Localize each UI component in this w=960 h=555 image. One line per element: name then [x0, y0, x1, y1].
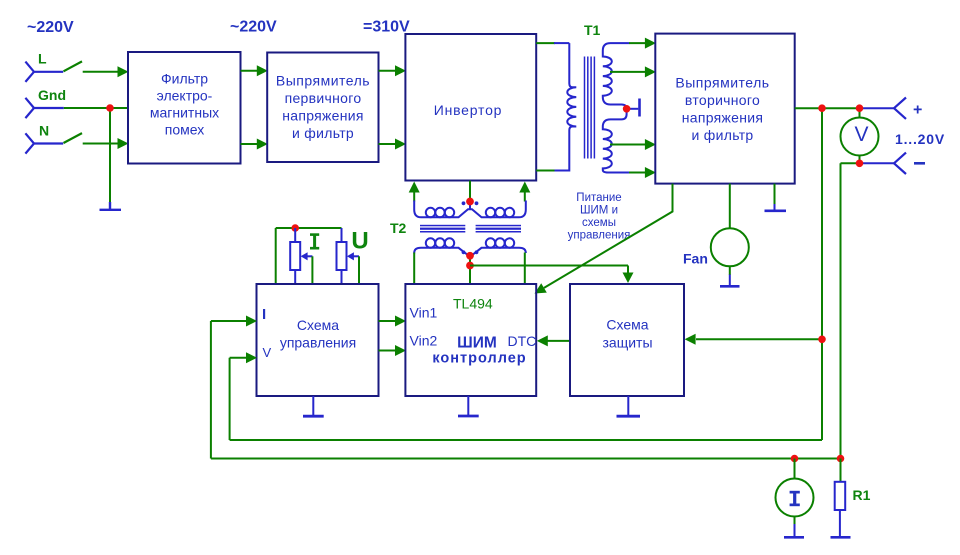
svg-text:Схема: Схема: [297, 317, 339, 333]
ground symbol ammeter: [784, 536, 804, 539]
transformer T1 primary winding: [554, 43, 576, 170]
potentiometer I (current set): [294, 228, 296, 242]
wire secondary rect ground stem: [774, 184, 776, 205]
svg-text:I: I: [262, 306, 266, 323]
svg-text:T2: T2: [390, 220, 407, 236]
node minus terminal: [894, 153, 906, 174]
svg-text:N: N: [39, 123, 49, 139]
block protection circuit: [570, 284, 684, 396]
ground symbol secondary rectifier: [765, 210, 787, 213]
label I pot: [310, 233, 319, 249]
wire T1 top to secondary rectifier arrow: [629, 42, 646, 44]
svg-text:защиты: защиты: [602, 335, 652, 351]
wire rectifier to inverter bottom arrow: [379, 143, 396, 145]
ground symbol R1: [831, 536, 851, 539]
wire L to EMI filter with arrow: [83, 71, 119, 73]
wire T1 tap1 to secondary rectifier arrow: [610, 71, 646, 73]
fan ground lead: [729, 266, 731, 275]
svg-text:1...20V: 1...20V: [895, 131, 945, 147]
wire EMI to primary rectifier bottom arrow: [241, 143, 258, 145]
wire pot supply top: [276, 227, 342, 229]
svg-text:контроллер: контроллер: [432, 351, 526, 367]
wire output minus: [860, 162, 895, 164]
svg-text:~220V: ~220V: [230, 19, 277, 36]
svg-text:магнитных: магнитных: [150, 105, 219, 121]
wire T2 lower left lead to PWM block: [413, 253, 415, 284]
wire T2 drive left arrow up into inverter: [409, 182, 420, 193]
svg-text:вторичного: вторичного: [685, 92, 760, 108]
svg-text:V: V: [263, 345, 272, 360]
svg-text:Выпрямитель: Выпрямитель: [675, 75, 769, 91]
svg-text:напряжения: напряжения: [282, 108, 364, 124]
svg-text:Fan: Fan: [683, 251, 708, 267]
wire Gnd to EMI filter: [64, 107, 128, 109]
wire ground branch vertical: [109, 108, 111, 203]
block secondary rectifier: [655, 34, 794, 184]
wire N to EMI filter with arrow: [83, 143, 119, 145]
voltmeter PV1: [841, 118, 879, 156]
svg-text:ШИМ: ШИМ: [457, 335, 497, 352]
block inverter U1: [405, 34, 536, 181]
svg-text:схемы: схемы: [582, 217, 616, 229]
wire T2 top center tap: [469, 181, 471, 203]
wire inverter out bottom: [536, 170, 554, 172]
svg-text:электро-: электро-: [157, 88, 213, 104]
block PWM controller: [405, 284, 536, 396]
junction dot voltmeter bottom: [856, 160, 864, 168]
ground symbol (mains earth): [100, 202, 122, 210]
resistor R1 shunt: [840, 459, 842, 482]
wire rectifier to inverter top arrow: [379, 70, 396, 72]
svg-text:=310V: =310V: [363, 19, 410, 36]
svg-text:L: L: [38, 51, 47, 67]
svg-text:Схема: Схема: [606, 317, 648, 333]
transformer T1 secondary upper winding: [603, 43, 630, 109]
svg-text:помех: помех: [165, 122, 204, 138]
junction dots T2 lower center: [466, 252, 474, 260]
junction dot plus branch: [818, 104, 826, 112]
wire output plus: [795, 107, 860, 109]
svg-text:Vin2: Vin2: [410, 333, 438, 349]
block primary rectifier: [267, 53, 378, 163]
potentiometer U (voltage set): [341, 228, 343, 242]
junction dot voltmeter top: [856, 104, 864, 112]
wire shunt sense to protection arrow: [696, 338, 822, 340]
node L terminal: [25, 62, 63, 82]
node N terminal: [25, 133, 63, 153]
wire protection to DTC arrow: [548, 340, 571, 342]
wire PWM supply diagonal with arrow: [544, 184, 673, 288]
transformer T1 core: [585, 57, 595, 159]
wire I sense bottom run: [211, 458, 841, 460]
svg-text:~220V: ~220V: [27, 19, 74, 36]
ground symbol fan: [720, 285, 740, 288]
svg-text:TL494: TL494: [453, 296, 493, 312]
junction dot Gnd: [106, 104, 114, 112]
wire V sense bottom run: [230, 439, 822, 441]
transformer T2 core: [420, 225, 521, 233]
label minus: [914, 162, 925, 165]
svg-text:Фильтр: Фильтр: [161, 71, 208, 87]
svg-text:U: U: [351, 228, 368, 255]
wire inverter out top: [536, 42, 555, 44]
node plus terminal: [894, 98, 906, 119]
phase dots T2 upper: [462, 201, 466, 205]
ground symbol control circuit: [312, 396, 314, 416]
svg-text:напряжения: напряжения: [682, 110, 764, 126]
ground symbol protection: [627, 396, 629, 416]
wire current sense into control I with arrow: [211, 320, 248, 322]
wire T2 lower right lead to PWM block: [524, 253, 526, 284]
wire T2 lower center tap down: [469, 256, 471, 284]
wire T1 bottom to secondary rectifier arrow: [629, 172, 646, 174]
svg-text:управления: управления: [280, 335, 356, 351]
junction dot T2 upper center: [466, 198, 474, 206]
wire T2 drive right arrow up into inverter: [519, 182, 530, 193]
svg-text:Инвертор: Инвертор: [434, 102, 503, 118]
wire T1 center tap terminal: [627, 108, 639, 110]
phase dots T2 lower: [462, 250, 466, 254]
wire voltage sense into control V with arrow: [230, 357, 248, 359]
block EMI filter: [128, 52, 241, 164]
node Gnd terminal: [25, 98, 63, 118]
svg-text:+: +: [913, 102, 922, 119]
wire center tap to protection circuit with down arrow: [470, 265, 628, 267]
svg-text:R1: R1: [853, 487, 871, 503]
svg-text:и фильтр: и фильтр: [292, 125, 354, 141]
wire control to PWM Vin2 arrow: [379, 350, 397, 352]
ammeter PA1 leads: [794, 459, 796, 480]
svg-text:Gnd: Gnd: [38, 87, 66, 103]
ammeter ground stem: [794, 517, 796, 525]
potentiometer I wiper: [307, 255, 313, 257]
potentiometer U wiper: [353, 255, 359, 257]
ammeter PA1: [776, 479, 814, 517]
junction dot ammeter branch: [791, 455, 799, 463]
label Питание ШИМ и схемы управления: [568, 192, 631, 242]
wire sense branch vertical from plus: [821, 108, 823, 440]
wire T1 tap2 to secondary rectifier arrow: [610, 144, 646, 146]
fan M1: [711, 228, 749, 266]
svg-text:DTC: DTC: [508, 333, 537, 349]
wire current return vertical: [840, 163, 842, 458]
transformer T2 lower winding: [414, 248, 526, 256]
transformer T2 upper winding: [414, 201, 526, 218]
transformer T1 secondary lower winding: [603, 109, 630, 173]
svg-text:T1: T1: [584, 22, 601, 38]
svg-text:ШИМ и: ШИМ и: [580, 205, 618, 217]
wire control to PWM Vin1 arrow: [379, 320, 397, 322]
svg-text:и фильтр: и фильтр: [691, 127, 753, 143]
wire EMI to primary rectifier top arrow: [241, 70, 258, 72]
block control circuit: [257, 284, 379, 396]
svg-text:Выпрямитель: Выпрямитель: [276, 73, 370, 89]
junction dot shunt top: [837, 455, 845, 463]
junction dot pot supply: [291, 224, 299, 232]
junction dot protection branch: [818, 336, 826, 344]
svg-text:первичного: первичного: [285, 90, 362, 106]
voltmeter PV1 leads: [859, 108, 861, 118]
svg-text:Питание: Питание: [576, 192, 621, 204]
switch S2 (N line): [64, 133, 83, 143]
wire secondary rect to fan: [729, 184, 731, 229]
svg-text:V: V: [854, 123, 868, 146]
junction dot T1 center tap: [623, 105, 631, 113]
svg-text:управления: управления: [568, 230, 631, 242]
ground symbol PWM: [467, 396, 469, 416]
svg-text:Vin1: Vin1: [410, 305, 438, 321]
switch S1 (L line): [64, 61, 83, 71]
